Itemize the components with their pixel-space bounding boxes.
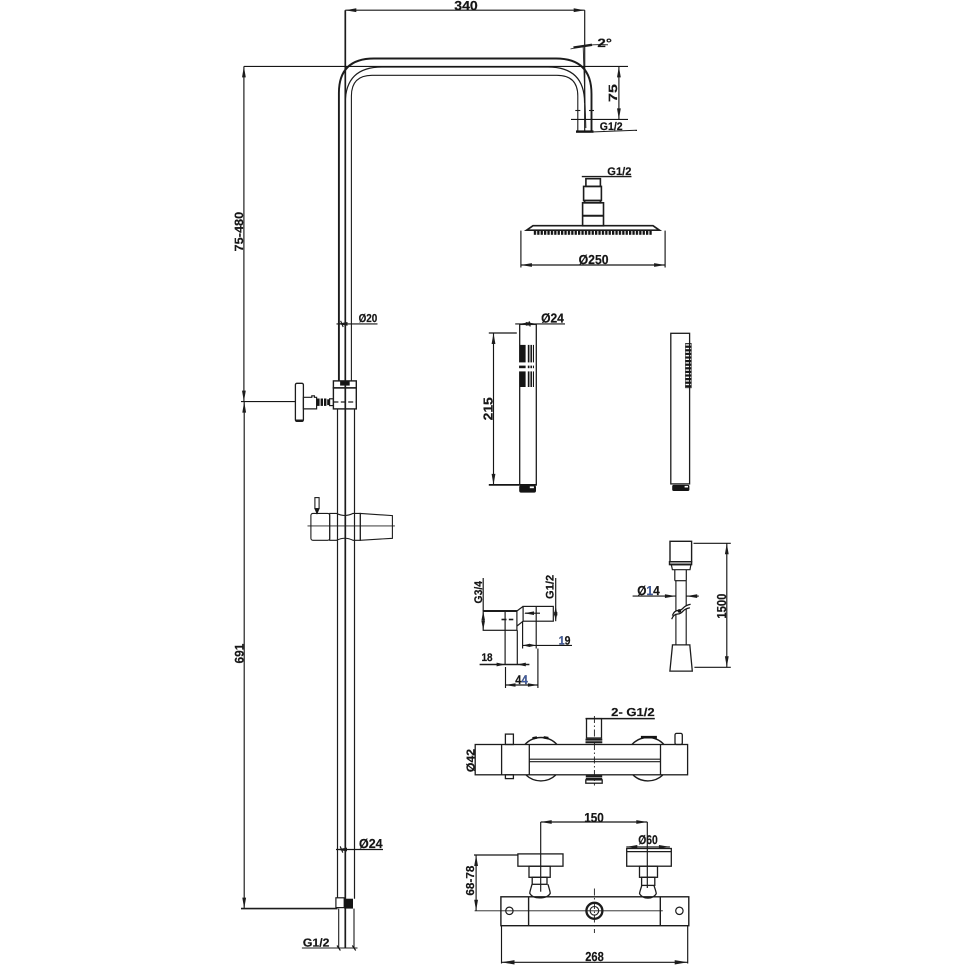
left knob <box>518 854 563 898</box>
center dashes <box>502 619 507 621</box>
svg-text:18: 18 <box>482 652 493 664</box>
svg-text:215: 215 <box>481 397 496 420</box>
svg-text:75: 75 <box>606 84 620 102</box>
holder center line <box>308 525 395 527</box>
knob arcs top view <box>525 738 557 745</box>
svg-text:Ø14: Ø14 <box>637 583 660 598</box>
spray band side <box>685 343 691 388</box>
hose break symbol <box>672 604 691 619</box>
holder cone <box>360 513 392 540</box>
bracket thread <box>317 399 329 406</box>
dim 68-78 <box>474 855 518 911</box>
dim 44 <box>506 649 538 689</box>
small dim arrows G3/4 <box>481 611 485 621</box>
G1/2 label connector <box>582 176 632 178</box>
top connection <box>587 719 602 738</box>
dim 150 <box>541 822 648 892</box>
svg-text:19: 19 <box>559 634 571 648</box>
center line arm drop + 340 right extension <box>584 10 586 131</box>
G1/2 leader arm tip <box>591 130 637 132</box>
screw holes <box>506 907 513 914</box>
svg-text:340: 340 <box>454 0 478 13</box>
center line column <box>344 10 346 948</box>
bottom cone <box>670 645 692 671</box>
bottom cap side <box>672 485 689 491</box>
svg-text:G3/4: G3/4 <box>473 580 485 603</box>
connector stack <box>583 179 604 226</box>
svg-text:75-480: 75-480 <box>232 211 246 251</box>
dim 268 <box>502 926 688 964</box>
svg-text:Ø42: Ø42 <box>465 749 477 772</box>
arm inner wall <box>351 75 577 381</box>
chamfers <box>517 606 523 611</box>
junction extension line <box>241 401 295 403</box>
middle seam lines <box>529 758 660 760</box>
dim D24 <box>515 323 565 325</box>
svg-text:G1/2: G1/2 <box>600 121 623 133</box>
tabs <box>505 734 513 744</box>
lower column right edge <box>354 409 356 899</box>
dim 1500 <box>694 543 731 667</box>
left body <box>483 611 517 630</box>
spray face <box>520 345 526 387</box>
G3/4 ext <box>482 578 484 611</box>
dim D60 <box>626 846 670 848</box>
svg-text:2- G1/2: 2- G1/2 <box>611 707 655 719</box>
G1/2 label bottom <box>302 947 358 949</box>
svg-text:Ø250: Ø250 <box>579 252 609 267</box>
svg-text:G1/2: G1/2 <box>607 166 631 178</box>
svg-text:Ø20: Ø20 <box>359 313 378 325</box>
long center hline <box>475 910 663 912</box>
center dash line <box>593 716 595 786</box>
right knob <box>627 849 672 899</box>
right body <box>523 606 553 621</box>
body <box>520 324 537 485</box>
svg-text:268: 268 <box>585 949 604 964</box>
bottom extension line <box>241 908 338 910</box>
svg-text:150: 150 <box>584 810 604 825</box>
svg-text:G1/2: G1/2 <box>303 938 330 950</box>
knob grip marks <box>533 736 538 740</box>
head disc <box>527 226 660 231</box>
lower column left edge <box>337 409 339 898</box>
2-deg tilted line <box>583 47 586 128</box>
mixer body front <box>501 897 689 926</box>
nozzle teeth <box>533 231 653 235</box>
bottom connection <box>586 775 602 777</box>
svg-text:68-78: 68-78 <box>465 865 477 896</box>
svg-text:1500: 1500 <box>714 594 729 619</box>
svg-text:2°: 2° <box>597 36 612 50</box>
down tube <box>504 611 506 665</box>
center line arm <box>345 67 584 103</box>
dim 19 <box>523 621 572 648</box>
svg-text:Ø24: Ø24 <box>541 311 565 326</box>
arm outer wall <box>339 59 592 382</box>
holder mid section <box>330 513 361 540</box>
bottom stub G1/2 <box>338 909 340 948</box>
center outlet <box>586 903 602 919</box>
bottom cap <box>519 485 536 492</box>
dim 215 <box>489 333 537 485</box>
2-G1/2 label <box>586 718 655 720</box>
svg-text:691: 691 <box>232 644 246 664</box>
svg-text:G1/2: G1/2 <box>545 575 557 599</box>
svg-text:Ø60: Ø60 <box>638 833 658 847</box>
thread ticks arm tip <box>575 110 580 112</box>
dim 18 <box>480 664 530 666</box>
svg-text:44: 44 <box>515 673 527 687</box>
G1/2 ext <box>555 578 557 621</box>
small dim arrows G1/2 <box>554 606 558 615</box>
holder left block <box>311 513 330 540</box>
dim D250 <box>521 231 665 268</box>
svg-text:Ø24: Ø24 <box>359 836 383 851</box>
arm tip thread bar <box>576 130 594 132</box>
holder pin <box>315 498 319 509</box>
dim D14 <box>633 595 699 597</box>
